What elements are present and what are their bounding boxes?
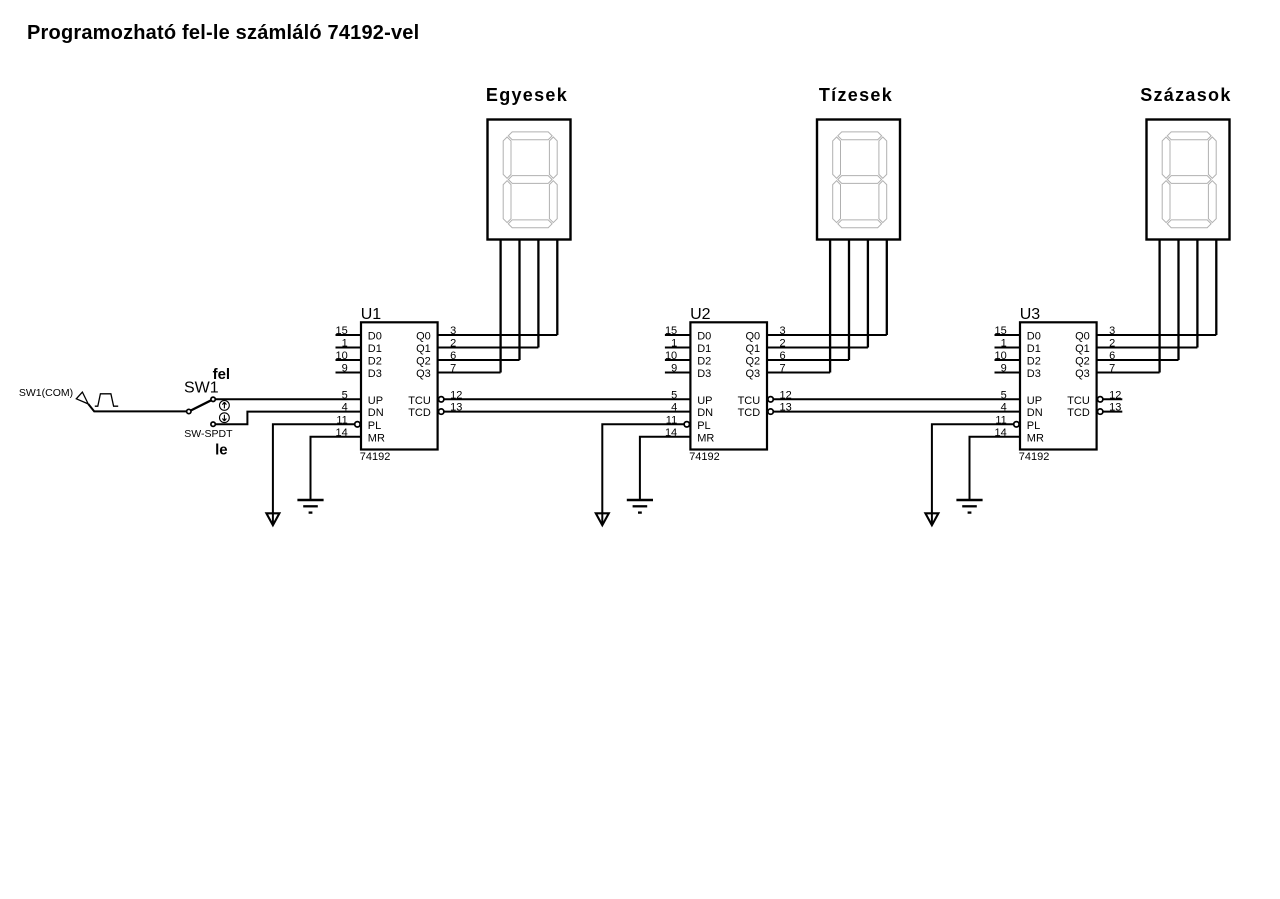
seven-segment display DS3 body <box>1147 120 1230 240</box>
IC U2 value 74192 <box>689 451 720 463</box>
svg-text:le: le <box>215 442 228 459</box>
IC U3 74192 body <box>1020 322 1097 449</box>
U2 pin name Q0 <box>746 331 761 343</box>
U1 pin name D0 <box>368 331 382 343</box>
wire: U1 D1 input stub (pin 1) <box>336 347 362 349</box>
wire: U3 D0 input stub (pin 15) <box>995 334 1021 336</box>
svg-text:Q2: Q2 <box>1075 356 1090 368</box>
U2 pin number 1 (D1) <box>671 338 677 350</box>
wire: U2 Q0 to display DS2 <box>767 334 887 336</box>
U2 pin number 12 (TCU) <box>780 389 792 401</box>
display DS2 segment c <box>879 181 887 223</box>
svg-text:D3: D3 <box>1027 368 1041 380</box>
svg-text:Q2: Q2 <box>416 356 431 368</box>
svg-text:TCU: TCU <box>738 395 761 407</box>
wire: U3 MR to ground <box>970 437 1021 499</box>
U1 pin number 6 (Q2) <box>450 350 456 362</box>
display DS3 segment f <box>1162 137 1170 178</box>
svg-text:Q3: Q3 <box>1075 368 1090 380</box>
svg-text:PL: PL <box>697 420 710 432</box>
display DS1 segment f <box>503 137 511 178</box>
wire: U3 Q1 to display DS3 <box>1097 347 1198 349</box>
wire: U3 D3 input stub (pin 9) <box>995 372 1021 374</box>
display DS3 lead for Q2 <box>1177 240 1179 361</box>
svg-text:Tízesek: Tízesek <box>819 85 893 105</box>
switch SW1 common pole contact <box>187 409 191 413</box>
U2 pin name TCD <box>738 407 761 419</box>
display DS3 segment d <box>1167 220 1211 228</box>
U2 pin name PL <box>697 420 710 432</box>
U1 pin number 4 (DN) <box>342 402 348 414</box>
svg-text:4: 4 <box>671 402 677 414</box>
display DS2 lead for Q1 <box>867 240 869 348</box>
wire: U1 Q3 to display DS1 <box>438 372 501 374</box>
U1 pin number 13 (TCD) <box>450 402 462 414</box>
U2 TCD inversion bubble <box>768 409 773 414</box>
U2 pin number 2 (Q1) <box>780 338 786 350</box>
U2 pin name TCU <box>738 395 761 407</box>
U2 pin number 9 (D3) <box>671 363 677 375</box>
U1 pin number 14 (MR) <box>336 427 348 439</box>
wire: U2 Q1 to display DS2 <box>767 347 868 349</box>
wire: U2 PL to down-arrow <box>602 424 684 524</box>
svg-text:MR: MR <box>368 432 385 444</box>
wire: U3 D1 input stub (pin 1) <box>995 347 1021 349</box>
display DS3 segment g <box>1167 176 1211 184</box>
wire: port to SW1 common <box>88 404 189 411</box>
svg-text:DN: DN <box>1027 407 1043 419</box>
U2 pin number 7 (Q3) <box>780 363 786 375</box>
svg-text:Q1: Q1 <box>1075 343 1090 355</box>
IC U3 value 74192 <box>1019 451 1050 463</box>
U3 pin number 7 (Q3) <box>1109 363 1115 375</box>
wire: U3 PL to down-arrow <box>932 424 1014 524</box>
svg-text:Q3: Q3 <box>746 368 761 380</box>
U1 pin name D2 <box>368 356 382 368</box>
switch SW1 up-direction marker <box>220 401 230 411</box>
U1 pin name PL <box>368 420 381 432</box>
U2 pin name D2 <box>697 356 711 368</box>
U3 pin name TCD <box>1067 407 1090 419</box>
U2 pin name Q1 <box>746 343 761 355</box>
U3 pin name D1 <box>1027 343 1041 355</box>
svg-text:PL: PL <box>1027 420 1040 432</box>
display DS1 segment a <box>508 132 552 140</box>
IC U2 reference designator <box>690 306 711 323</box>
svg-text:74192: 74192 <box>360 451 391 463</box>
wire: U3 TCD stub <box>1103 411 1123 413</box>
display DS1 segment d <box>508 220 552 228</box>
U3 pin number 13 (TCD) <box>1109 402 1121 414</box>
display DS1 segment g <box>508 176 552 184</box>
U3 pin number 10 (D2) <box>995 350 1007 362</box>
U2 pin number 14 (MR) <box>665 427 677 439</box>
U2 pin name D0 <box>697 331 711 343</box>
U3 pin number 12 (TCU) <box>1109 389 1121 401</box>
U1 TCU inversion bubble <box>439 397 444 402</box>
svg-text:SW1(COM): SW1(COM) <box>19 387 73 399</box>
wire: U1 Q0 to display DS1 <box>438 334 558 336</box>
wire: U2 D0 input stub (pin 15) <box>665 334 691 336</box>
U2 pin number 11 (PL) <box>666 414 677 426</box>
svg-text:TCU: TCU <box>1067 395 1090 407</box>
svg-text:TCD: TCD <box>1067 407 1090 419</box>
U3 pin number 15 (D0) <box>995 325 1007 337</box>
switch SW1 reference designator <box>184 379 219 396</box>
U1 pin name TCD <box>408 407 431 419</box>
svg-text:4: 4 <box>1001 402 1007 414</box>
wire: U2 D3 input stub (pin 9) <box>665 372 691 374</box>
display DS2 segment d <box>838 220 882 228</box>
U2 pin number 13 (TCD) <box>780 402 792 414</box>
wire: SW1 up throw to U1 UP (pin 5) <box>213 398 361 400</box>
U2 pin number 6 (Q2) <box>780 350 786 362</box>
svg-text:UP: UP <box>697 395 712 407</box>
display DS1 label "Egyesek" <box>486 85 568 105</box>
switch label le (down) <box>215 442 228 459</box>
U1 PL inversion bubble <box>355 422 360 427</box>
wire: U1 Q2 to display DS1 <box>438 359 520 361</box>
net label SW1(COM) <box>19 387 73 399</box>
U1 pin number 9 (D3) <box>342 363 348 375</box>
U2 pin number 4 (DN) <box>671 402 677 414</box>
display DS2 segment b <box>879 137 887 178</box>
U1 pin name DN <box>368 407 384 419</box>
U2 pin number 10 (D2) <box>665 350 677 362</box>
U1 pin name TCU <box>408 395 431 407</box>
display DS3 lead for Q1 <box>1196 240 1198 348</box>
svg-text:D1: D1 <box>1027 343 1041 355</box>
svg-text:U2: U2 <box>690 306 711 323</box>
U2 TCU inversion bubble <box>768 397 773 402</box>
U3 pin name D3 <box>1027 368 1041 380</box>
U3 pin name DN <box>1027 407 1043 419</box>
U3 pin name Q1 <box>1075 343 1090 355</box>
open arrow terminal below U2 PL <box>596 513 609 525</box>
switch SW1 value SW-SPDT <box>184 428 233 440</box>
svg-text:Q0: Q0 <box>416 331 431 343</box>
svg-text:DN: DN <box>368 407 384 419</box>
display DS1 segment e <box>503 181 511 223</box>
U1 pin name D1 <box>368 343 382 355</box>
svg-text:D1: D1 <box>697 343 711 355</box>
display DS1 segment c <box>549 181 557 223</box>
earth ground symbol under U3 <box>956 500 982 513</box>
wire: U1 D2 input stub (pin 10) <box>336 359 362 361</box>
U3 pin name D2 <box>1027 356 1041 368</box>
switch SW1 down-direction marker <box>220 413 230 423</box>
svg-text:Egyesek: Egyesek <box>486 85 568 105</box>
IC U3 reference designator <box>1020 306 1041 323</box>
wire: U3 Q2 to display DS3 <box>1097 359 1179 361</box>
U1 pin name Q1 <box>416 343 431 355</box>
wire: U2 Q3 to display DS2 <box>767 372 830 374</box>
U3 pin number 2 (Q1) <box>1109 338 1115 350</box>
svg-text:TCU: TCU <box>408 395 431 407</box>
U2 pin name D3 <box>697 368 711 380</box>
wire: U2 Q2 to display DS2 <box>767 359 849 361</box>
U2 pin number 15 (D0) <box>665 325 677 337</box>
U1 pin number 1 (D1) <box>342 338 348 350</box>
display DS3 segment e <box>1162 181 1170 223</box>
svg-text:D3: D3 <box>697 368 711 380</box>
U1 pin number 12 (TCU) <box>450 389 462 401</box>
svg-text:Q3: Q3 <box>416 368 431 380</box>
svg-text:fel: fel <box>213 366 231 383</box>
switch SW1 upper throw contact (fel) <box>211 397 215 401</box>
U1 pin number 2 (Q1) <box>450 338 456 350</box>
display DS3 segment b <box>1208 137 1216 178</box>
display DS1 lead for Q2 <box>518 240 520 361</box>
open arrow terminal below U1 PL <box>266 513 279 525</box>
svg-text:TCD: TCD <box>408 407 431 419</box>
svg-text:UP: UP <box>1027 395 1042 407</box>
wire: U3 Q0 to display DS3 <box>1097 334 1217 336</box>
switch label fel (up) <box>213 366 231 383</box>
svg-text:Százasok: Százasok <box>1140 85 1231 105</box>
display DS2 segment e <box>833 181 841 223</box>
svg-text:SW-SPDT: SW-SPDT <box>184 428 233 440</box>
open arrow terminal below U3 PL <box>925 513 938 525</box>
U2 pin name Q3 <box>746 368 761 380</box>
U1 pin name Q0 <box>416 331 431 343</box>
U2 pin name UP <box>697 395 712 407</box>
svg-text:D0: D0 <box>697 331 711 343</box>
U3 pin number 5 (UP) <box>1001 389 1007 401</box>
svg-text:MR: MR <box>1027 432 1044 444</box>
wire: U2 MR to ground <box>640 437 691 499</box>
svg-text:TCD: TCD <box>738 407 761 419</box>
wire: U3 Q3 to display DS3 <box>1097 372 1160 374</box>
svg-text:D3: D3 <box>368 368 382 380</box>
display DS1 segment b <box>549 137 557 178</box>
svg-text:U3: U3 <box>1020 306 1041 323</box>
svg-text:DN: DN <box>697 407 713 419</box>
U3 pin name D0 <box>1027 331 1041 343</box>
U3 TCU inversion bubble <box>1098 397 1103 402</box>
wire: U1 TCD to U2 DN <box>444 411 691 413</box>
U2 pin name MR <box>697 432 714 444</box>
U2 pin number 3 (Q0) <box>780 325 786 337</box>
svg-text:74192: 74192 <box>1019 451 1050 463</box>
display DS2 segment f <box>833 137 841 178</box>
wire: U1 Q1 to display DS1 <box>438 347 539 349</box>
U3 pin number 14 (MR) <box>995 427 1007 439</box>
U2 pin name DN <box>697 407 713 419</box>
earth ground symbol under U2 <box>627 500 653 513</box>
svg-text:D1: D1 <box>368 343 382 355</box>
svg-text:D2: D2 <box>1027 356 1041 368</box>
display DS3 label "Százasok" <box>1140 85 1231 105</box>
wire: U2 D1 input stub (pin 1) <box>665 347 691 349</box>
U3 pin name PL <box>1027 420 1040 432</box>
U3 pin name UP <box>1027 395 1042 407</box>
svg-text:Q1: Q1 <box>746 343 761 355</box>
U3 pin number 11 (PL) <box>995 414 1006 426</box>
U3 pin number 3 (Q0) <box>1109 325 1115 337</box>
display DS3 lead for Q3 <box>1158 240 1160 373</box>
svg-text:5: 5 <box>1001 389 1007 401</box>
wire: U2 TCD to U3 DN <box>773 411 1020 413</box>
wire: U1 MR to ground <box>311 437 362 499</box>
svg-text:Q0: Q0 <box>746 331 761 343</box>
svg-text:D2: D2 <box>368 356 382 368</box>
svg-text:D2: D2 <box>697 356 711 368</box>
svg-text:74192: 74192 <box>689 451 720 463</box>
seven-segment display DS2 body <box>817 120 900 240</box>
svg-text:Q2: Q2 <box>746 356 761 368</box>
U3 PL inversion bubble <box>1014 422 1019 427</box>
U3 pin number 6 (Q2) <box>1109 350 1115 362</box>
U1 pin name MR <box>368 432 385 444</box>
U3 TCD inversion bubble <box>1098 409 1103 414</box>
svg-text:Q1: Q1 <box>416 343 431 355</box>
display DS1 lead for Q1 <box>537 240 539 348</box>
display DS3 segment a <box>1167 132 1211 140</box>
U1 pin number 3 (Q0) <box>450 325 456 337</box>
svg-text:UP: UP <box>368 395 383 407</box>
U2 pin name Q2 <box>746 356 761 368</box>
earth ground symbol under U1 <box>297 500 323 513</box>
IC U1 74192 body <box>361 322 438 449</box>
U1 pin number 11 (PL) <box>336 414 347 426</box>
switch SW1 lever <box>189 399 213 411</box>
schematic title <box>27 22 419 44</box>
wire: U1 PL to down-arrow <box>273 424 355 524</box>
wire: U2 D2 input stub (pin 10) <box>665 359 691 361</box>
svg-text:U1: U1 <box>361 306 382 323</box>
U3 pin number 9 (D3) <box>1001 363 1007 375</box>
U3 pin name Q3 <box>1075 368 1090 380</box>
U1 pin number 15 (D0) <box>336 325 348 337</box>
input port triangle <box>76 392 88 404</box>
switch SW1 lower throw contact (le) <box>211 422 215 426</box>
svg-text:5: 5 <box>671 389 677 401</box>
IC U2 74192 body <box>690 322 767 449</box>
svg-text:MR: MR <box>697 432 714 444</box>
U1 pin name Q3 <box>416 368 431 380</box>
U1 pin number 7 (Q3) <box>450 363 456 375</box>
display DS3 segment c <box>1208 181 1216 223</box>
wire: U1 D0 input stub (pin 15) <box>336 334 362 336</box>
U3 pin number 4 (DN) <box>1001 402 1007 414</box>
U2 pin number 5 (UP) <box>671 389 677 401</box>
svg-text:D0: D0 <box>1027 331 1041 343</box>
seven-segment display DS1 body <box>488 120 571 240</box>
wire: SW1 down throw to U1 DN (pin 4) <box>213 412 361 425</box>
display DS2 lead for Q3 <box>829 240 831 373</box>
display DS2 label "Tízesek" <box>819 85 893 105</box>
U1 pin name D3 <box>368 368 382 380</box>
IC U1 reference designator <box>361 306 382 323</box>
display DS2 segment g <box>838 176 882 184</box>
U3 pin name TCU <box>1067 395 1090 407</box>
U1 pin number 5 (UP) <box>342 389 348 401</box>
svg-text:Q0: Q0 <box>1075 331 1090 343</box>
clock pulse symbol <box>95 394 118 406</box>
U2 pin name D1 <box>697 343 711 355</box>
U1 pin name UP <box>368 395 383 407</box>
U1 pin name Q2 <box>416 356 431 368</box>
display DS1 lead for Q0 <box>556 240 558 336</box>
wire: U2 TCU to U3 UP <box>773 398 1020 400</box>
U3 pin name Q2 <box>1075 356 1090 368</box>
U1 pin number 10 (D2) <box>336 350 348 362</box>
U1 TCD inversion bubble <box>439 409 444 414</box>
svg-text:PL: PL <box>368 420 381 432</box>
wire: U1 TCU to U2 UP <box>444 398 691 400</box>
U3 pin number 1 (D1) <box>1001 338 1007 350</box>
svg-text:D0: D0 <box>368 331 382 343</box>
U3 pin name Q0 <box>1075 331 1090 343</box>
wire: U3 TCU stub <box>1103 398 1123 400</box>
IC U1 value 74192 <box>360 451 391 463</box>
svg-text:Programozható fel-le számláló: Programozható fel-le számláló 74192-vel <box>27 22 419 44</box>
U2 PL inversion bubble <box>684 422 689 427</box>
display DS3 lead for Q0 <box>1215 240 1217 336</box>
display DS2 lead for Q0 <box>886 240 888 336</box>
wire: U3 D2 input stub (pin 10) <box>995 359 1021 361</box>
display DS2 lead for Q2 <box>848 240 850 361</box>
display DS2 segment a <box>838 132 882 140</box>
wire: U1 D3 input stub (pin 9) <box>336 372 362 374</box>
display DS1 lead for Q3 <box>499 240 501 373</box>
U3 pin name MR <box>1027 432 1044 444</box>
